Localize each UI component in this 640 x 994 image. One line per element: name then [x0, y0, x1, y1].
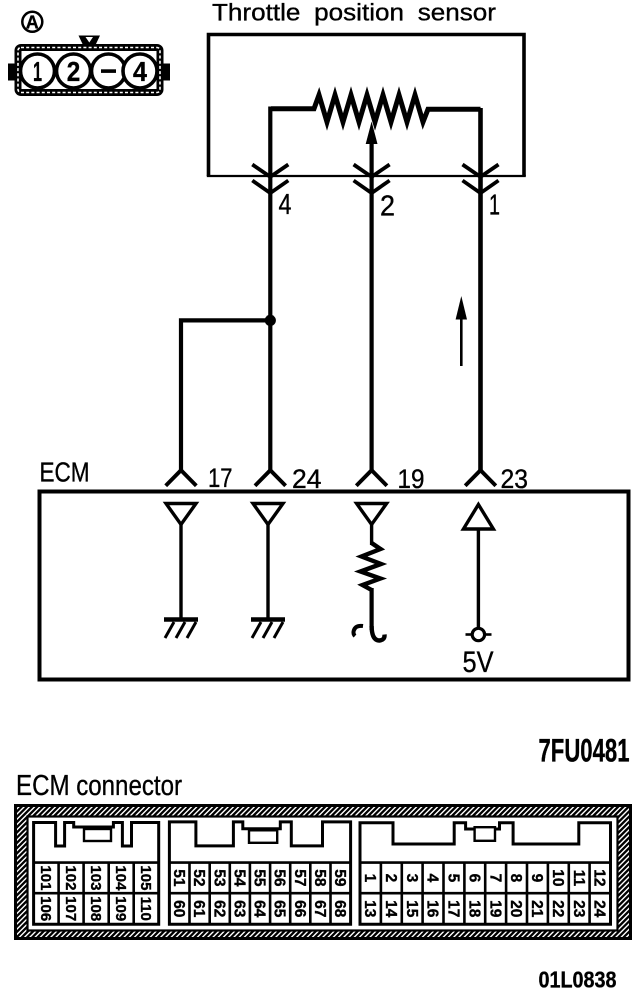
- ECM pin 19 input triangle: [357, 504, 387, 525]
- ground (pin 24): [251, 620, 285, 639]
- junction dot: [265, 315, 276, 326]
- svg-text:10: 10: [549, 869, 566, 886]
- ECM pin 23 output triangle: [463, 505, 493, 530]
- pin symbol ECM pin 24: [255, 470, 286, 486]
- svg-text:106: 106: [37, 896, 54, 921]
- svg-text:5: 5: [444, 874, 461, 883]
- svg-text:1: 1: [33, 56, 42, 87]
- connector A cavity 1: [21, 54, 55, 88]
- pin numbers 1-24: [361, 869, 608, 917]
- connector A cavity 4: [123, 54, 157, 88]
- svg-text:65: 65: [271, 900, 288, 918]
- svg-text:56: 56: [271, 869, 288, 887]
- wire: junction down to ECM pin 24: [268, 318, 272, 470]
- svg-text:5V: 5V: [463, 646, 494, 679]
- wire ECM pin 19 to resistor: [370, 524, 373, 545]
- svg-text:4: 4: [279, 189, 292, 221]
- svg-text:11: 11: [570, 870, 587, 887]
- pin symbol sensor pin 4: [252, 165, 288, 194]
- svg-text:17: 17: [208, 463, 233, 493]
- svg-text:23: 23: [570, 900, 587, 918]
- hook terminal (pin 19): [353, 626, 384, 641]
- connector A top tab: [79, 36, 101, 46]
- svg-text:63: 63: [230, 900, 247, 918]
- wire resistor to hook: [370, 588, 374, 630]
- svg-text:22: 22: [549, 900, 566, 917]
- wire: sensor pin 2 (wiper) down to ECM pin 19: [370, 176, 374, 470]
- ECM pin 17 input triangle: [166, 504, 196, 525]
- svg-text:2: 2: [380, 191, 395, 223]
- throttle position sensor box: [207, 35, 526, 177]
- svg-text:A: A: [26, 12, 39, 32]
- svg-text:62: 62: [210, 900, 227, 917]
- svg-text:7FU0481: 7FU0481: [539, 733, 630, 769]
- svg-text:ECM: ECM: [40, 457, 90, 488]
- resistor (pull-up inside ECM): [361, 543, 382, 590]
- current direction arrow: [456, 296, 467, 366]
- svg-text:18: 18: [465, 900, 482, 918]
- svg-text:108: 108: [87, 896, 104, 921]
- svg-text:57: 57: [291, 869, 308, 886]
- ECM pin 24 input triangle: [253, 504, 283, 525]
- 5V terminal circle: [466, 628, 492, 640]
- pin symbol sensor pin 1: [463, 165, 499, 194]
- svg-text:52: 52: [190, 869, 207, 886]
- pin symbol sensor pin 2: [354, 165, 390, 194]
- wire: sensor pin 4 down to junction: [268, 107, 272, 323]
- pin symbol ECM pin 23: [465, 470, 496, 486]
- svg-text:ECM connector: ECM connector: [16, 770, 182, 802]
- svg-text:8: 8: [507, 874, 524, 883]
- pin numbers 51-68: [170, 869, 348, 917]
- svg-text:4: 4: [133, 56, 147, 87]
- pin numbers 101-110: [37, 865, 154, 921]
- ECM box: [40, 492, 629, 680]
- svg-text:58: 58: [311, 869, 328, 887]
- svg-text:19: 19: [486, 900, 503, 918]
- svg-text:110: 110: [137, 897, 154, 921]
- svg-text:3: 3: [403, 874, 420, 883]
- svg-text:60: 60: [170, 900, 187, 917]
- wire: sensor pin 1 down to ECM pin 23: [478, 108, 483, 470]
- svg-text:16: 16: [424, 900, 441, 918]
- svg-text:103: 103: [87, 865, 104, 890]
- svg-text:1: 1: [361, 874, 378, 883]
- svg-text:2: 2: [382, 874, 399, 883]
- svg-text:61: 61: [190, 900, 207, 918]
- svg-text:59: 59: [331, 869, 348, 887]
- ECM connector block 51-68: [169, 822, 350, 924]
- svg-text:109: 109: [112, 896, 129, 921]
- resistor (potentiometer track): [271, 95, 481, 122]
- svg-text:2: 2: [67, 56, 81, 87]
- ECM connector block 1-24: [360, 823, 611, 925]
- connector A cavity 3 (blank): [92, 54, 126, 88]
- svg-text:102: 102: [62, 865, 79, 890]
- svg-text:14: 14: [382, 900, 399, 918]
- ECM connector block 101-110: [34, 823, 159, 925]
- svg-text:53: 53: [210, 869, 227, 887]
- svg-text:9: 9: [528, 874, 545, 883]
- connector A left ear: [8, 64, 16, 81]
- connector A cavity 2: [57, 54, 91, 88]
- ground (pin 17): [164, 620, 198, 639]
- svg-text:68: 68: [331, 900, 348, 918]
- wire ECM pin 17 to ground: [179, 524, 182, 619]
- svg-text:67: 67: [311, 900, 328, 917]
- wire: branch junction to ECM pin 17: [181, 320, 270, 470]
- svg-text:17: 17: [444, 900, 461, 917]
- connector A body: [18, 48, 160, 93]
- svg-text:104: 104: [112, 865, 129, 891]
- svg-text:64: 64: [251, 900, 268, 918]
- svg-text:66: 66: [291, 900, 308, 918]
- wiper arrow: [366, 122, 378, 179]
- wire ECM pin 24 to ground: [266, 524, 269, 619]
- svg-text:54: 54: [230, 869, 247, 887]
- svg-text:6: 6: [465, 874, 482, 883]
- svg-text:15: 15: [403, 900, 420, 918]
- ECM connector shell: [16, 806, 631, 939]
- svg-text:Throttle position sensor: Throttle position sensor: [212, 0, 496, 27]
- svg-text:21: 21: [528, 900, 545, 918]
- svg-text:20: 20: [507, 900, 524, 917]
- pin symbol ECM pin 19: [356, 470, 387, 486]
- svg-text:101: 101: [37, 865, 54, 890]
- svg-text:01L0838: 01L0838: [539, 967, 617, 993]
- svg-text:105: 105: [137, 865, 154, 890]
- pin symbol ECM pin 17: [166, 470, 197, 486]
- node A (circled A label): [22, 12, 42, 33]
- svg-text:4: 4: [424, 874, 441, 883]
- connector A right ear: [163, 64, 171, 81]
- svg-text:55: 55: [251, 869, 268, 887]
- svg-text:12: 12: [591, 869, 608, 886]
- svg-text:51: 51: [170, 869, 187, 887]
- wire ECM pin 23 to 5V: [477, 529, 480, 628]
- svg-text:13: 13: [361, 900, 378, 918]
- svg-text:1: 1: [489, 190, 500, 222]
- svg-text:24: 24: [591, 900, 608, 918]
- svg-text:7: 7: [486, 874, 503, 883]
- svg-text:107: 107: [62, 896, 79, 921]
